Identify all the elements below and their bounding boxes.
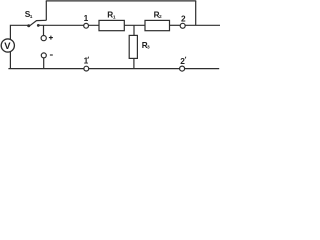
wire R3 upper stub [133, 25, 135, 35]
wire R1 to R2 with R3 tap [124, 24, 145, 26]
switch contact dot on main wire [37, 24, 40, 27]
wire R3 lower stub [133, 58, 135, 68]
prime mark of 2-prime [184, 57, 187, 59]
svg-text:2: 2 [159, 14, 162, 20]
node 1-prime terminal circle [84, 66, 89, 71]
resistor R1 [99, 20, 124, 30]
node 2-prime terminal circle [180, 66, 185, 71]
wire from source V up to switch [10, 25, 27, 40]
svg-text:1: 1 [84, 55, 89, 65]
svg-text:2: 2 [180, 56, 185, 66]
minus terminal circle [41, 53, 46, 58]
svg-text:V: V [4, 40, 11, 51]
wire stub from - terminal to bottom rail [43, 58, 45, 69]
wire bottom rail [8, 68, 219, 70]
wire source V to bottom rail [9, 51, 11, 69]
wire top bypass rail [46, 0, 196, 2]
svg-text:1: 1 [113, 14, 116, 20]
wire R2 to node 2 [170, 24, 181, 26]
minus sign [50, 54, 53, 56]
plus sign [49, 36, 53, 40]
prime mark of 1-prime [87, 57, 90, 59]
resistor R3 [129, 35, 137, 58]
plus terminal circle [41, 36, 46, 41]
wire stub to + terminal [43, 25, 45, 35]
wire right bypass vertical [195, 1, 197, 25]
wire node 2 to right edge [185, 24, 220, 26]
resistor R2 [145, 20, 170, 30]
svg-text:3: 3 [147, 45, 150, 51]
svg-text:1: 1 [30, 14, 33, 20]
wire left bypass vertical [45, 1, 47, 21]
node 1 terminal circle [84, 23, 89, 28]
node 2 terminal circle [180, 23, 185, 28]
voltage source V circle [1, 39, 14, 52]
switch S1 pivot dot [27, 24, 30, 27]
wire main row node1 to R1 [38, 24, 99, 26]
svg-text:2: 2 [181, 13, 186, 23]
switch S1 lever [29, 20, 46, 26]
svg-text:1: 1 [84, 13, 89, 23]
